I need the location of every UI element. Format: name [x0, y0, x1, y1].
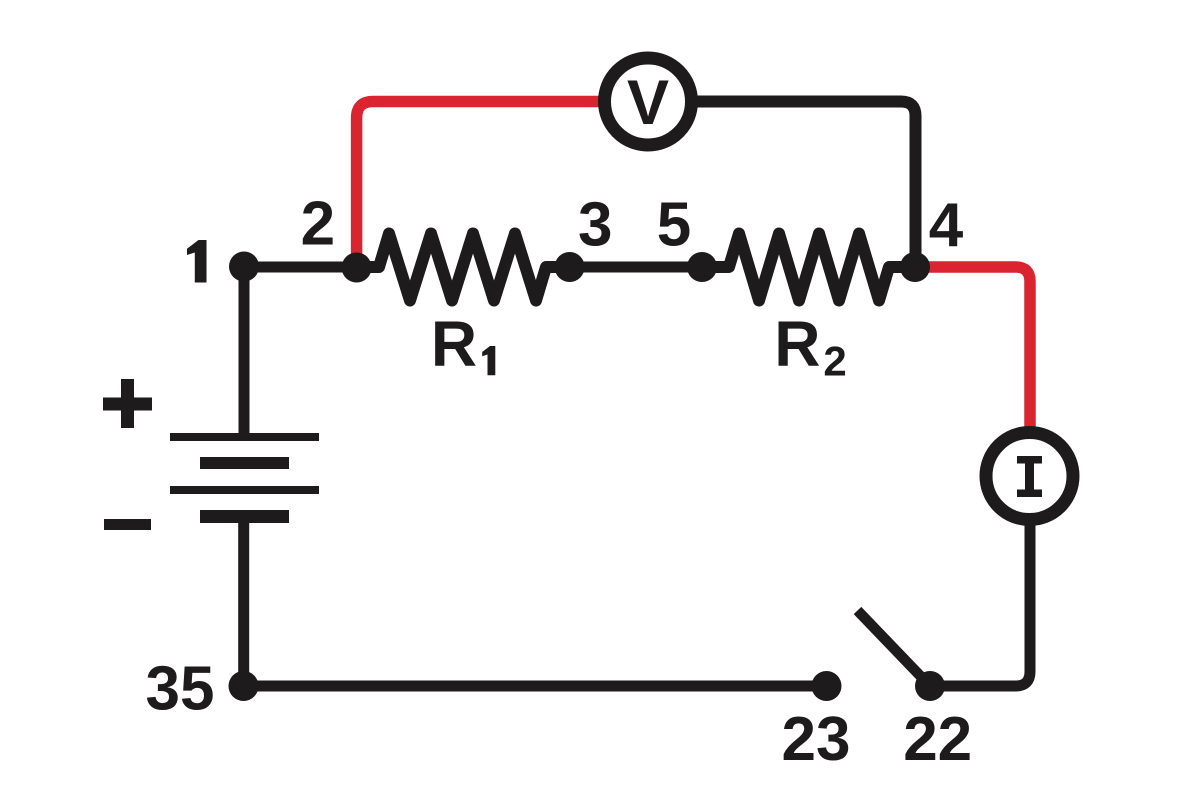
svg-text:22: 22: [903, 705, 972, 774]
battery plate 4 short negative: [200, 510, 289, 523]
svg-text:2: 2: [823, 338, 846, 385]
switch arm open from node22: [858, 611, 931, 687]
red wire: node2 up, corner, right to voltmeter left: [357, 102, 602, 273]
node 4: [900, 252, 930, 282]
voltmeter circle U-V: [605, 58, 692, 145]
node 5: [687, 252, 717, 282]
svg-text:R: R: [774, 308, 820, 380]
svg-text:V: V: [627, 68, 669, 138]
ammeter circle U-I: [986, 433, 1073, 520]
svg-text:3: 3: [578, 191, 612, 260]
svg-text:23: 23: [782, 705, 851, 774]
node 35: [229, 671, 259, 701]
minus sign: [104, 519, 151, 530]
node 23: [812, 671, 842, 701]
wire: node1 to node2 horizontal: [244, 262, 357, 273]
svg-text:5: 5: [657, 191, 691, 260]
battery plate 2 short negative: [200, 457, 289, 469]
svg-text:R: R: [431, 308, 477, 380]
node 3: [555, 252, 585, 282]
wire: node3 to node5 horizontal: [570, 262, 702, 273]
battery plate 1 long positive: [170, 433, 319, 441]
label node 1: [187, 240, 207, 283]
ammeter letter I (I-beam): [1017, 456, 1042, 497]
svg-text:4: 4: [929, 191, 964, 260]
resistor R2 zigzag: [702, 234, 915, 301]
node 2: [342, 253, 372, 283]
wire: voltmeter right, corner, down to node4: [690, 102, 916, 268]
battery plate 3 long positive: [170, 486, 319, 494]
svg-text:2: 2: [301, 190, 335, 259]
node 22: [915, 671, 945, 701]
wire: node1 down to battery top plate: [239, 267, 250, 437]
node 1: [229, 252, 259, 282]
svg-text:35: 35: [146, 655, 215, 724]
plus sign: [103, 379, 152, 428]
red wire: node4 right, corner, down to ammeter top: [915, 267, 1030, 428]
wire: battery bottom plate down to node 35: [244, 516, 826, 686]
resistor R1 zigzag: [357, 234, 570, 301]
wire: ammeter bottom down, corner, left to node22: [930, 524, 1030, 686]
